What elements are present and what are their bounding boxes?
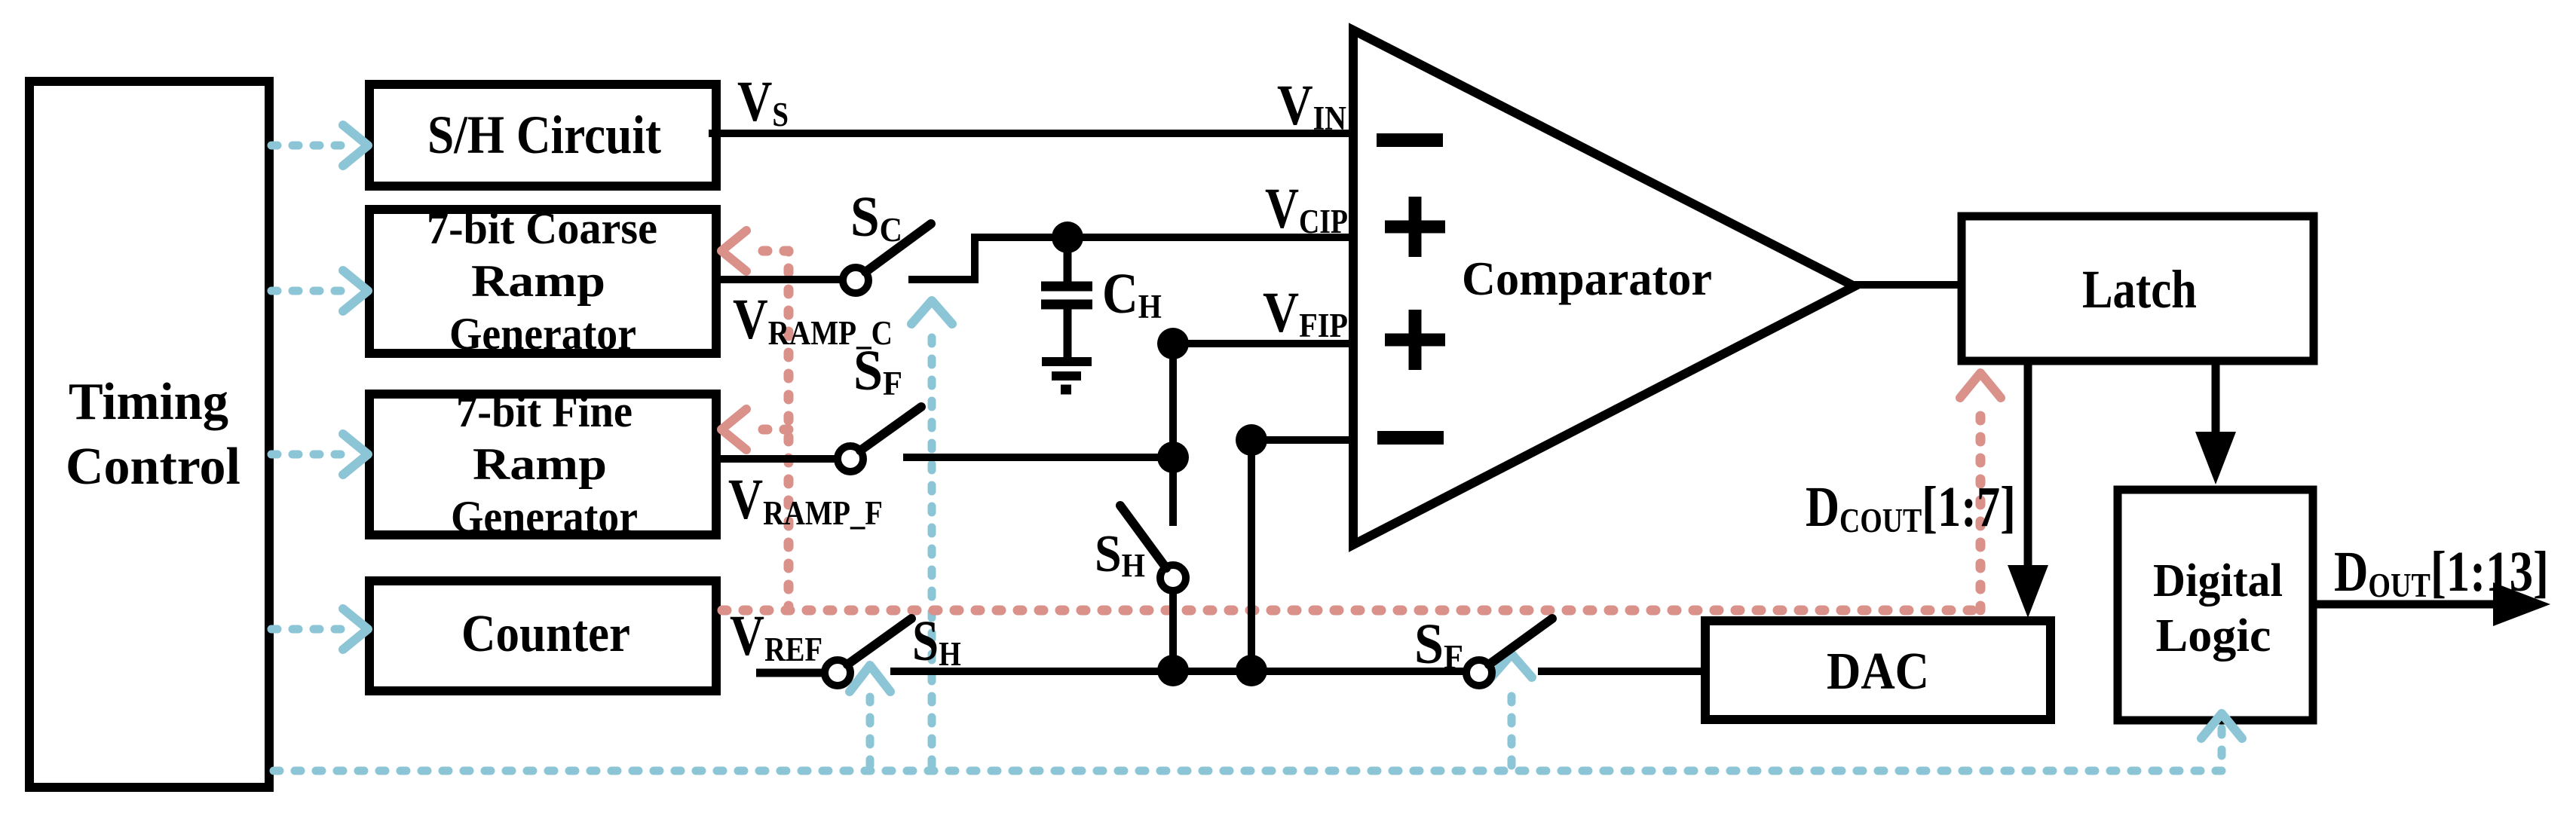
plus input V_CIP xyxy=(1385,197,1445,257)
label V_IN xyxy=(1277,75,1346,138)
minus input V_REF xyxy=(1377,431,1444,445)
op-amp comparator xyxy=(1353,30,1855,545)
svg-text:Generator: Generator xyxy=(449,309,636,359)
arrowhead into S/H xyxy=(343,125,368,166)
label D_COUT[1:7] xyxy=(1806,475,2016,540)
wire V_RAMP_C from coarse ramp to switch SC xyxy=(712,276,844,283)
svg-text:Latch: Latch xyxy=(2082,259,2197,319)
wire comparator minus input xyxy=(1251,436,1353,444)
wire timing to fine ramp xyxy=(271,451,343,459)
arrowhead to latch xyxy=(1960,373,2001,398)
svg-text:Counter: Counter xyxy=(461,605,630,663)
label V_CIP xyxy=(1265,177,1348,241)
plus input V_FIP xyxy=(1385,310,1445,370)
block Latch xyxy=(1962,216,2314,361)
block Timing Control xyxy=(29,81,269,787)
wire comparator output to Latch xyxy=(1849,281,1962,289)
wire node down to switch SH xyxy=(1169,457,1177,526)
wire from SC to V_CIP rail (step) xyxy=(908,237,975,280)
svg-text:Timing: Timing xyxy=(69,373,228,431)
label V_REF xyxy=(730,605,822,669)
wire V_RAMP_F from fine ramp to switch SF xyxy=(712,455,838,463)
label V_RAMP_F xyxy=(728,468,883,533)
node on V_CIP rail xyxy=(1052,222,1083,253)
svg-text:Control: Control xyxy=(66,438,240,496)
switch SF near DAC xyxy=(1466,619,1552,686)
capacitor C_H xyxy=(1041,237,1092,357)
label C_H xyxy=(1102,263,1162,326)
arrowhead into coarse ramp xyxy=(343,270,368,311)
svg-text:7-bit Fine: 7-bit Fine xyxy=(456,387,633,436)
block Counter xyxy=(369,581,716,691)
wire timing to counter xyxy=(271,625,343,634)
block 7-bit Fine Ramp Generator xyxy=(369,387,716,542)
switch SH on V_REF rail xyxy=(825,619,911,686)
arrowhead into counter xyxy=(343,609,368,649)
label SC xyxy=(850,185,902,249)
ground xyxy=(1042,362,1092,390)
label SH xyxy=(912,610,961,674)
wire riser to SF switch xyxy=(1508,686,1516,765)
svg-text:7-bit Coarse: 7-bit Coarse xyxy=(427,203,657,253)
node V_FIP xyxy=(1157,328,1189,359)
block DAC xyxy=(1705,621,2051,720)
node SF wire xyxy=(1157,442,1189,473)
svg-text:Digital: Digital xyxy=(2153,555,2283,607)
wire V_S from S/H to comparator xyxy=(709,130,1353,137)
block S/H Circuit xyxy=(369,84,716,186)
label SF xyxy=(853,338,902,402)
label SF xyxy=(1414,612,1463,676)
wire V_FIP node down to SF wire xyxy=(1169,344,1177,457)
svg-text:S/H Circuit: S/H Circuit xyxy=(427,105,661,165)
blue dashed control lines xyxy=(271,145,2222,771)
switch SF xyxy=(838,407,921,472)
svg-text:Ramp: Ramp xyxy=(471,256,605,306)
svg-text:Ramp: Ramp xyxy=(473,439,607,489)
arrowhead into coarse ramp xyxy=(721,231,746,271)
svg-text:Generator: Generator xyxy=(451,492,638,542)
wire riser left xyxy=(784,251,794,610)
svg-text:DAC: DAC xyxy=(1827,643,1929,701)
switch SH vertical xyxy=(1120,506,1186,591)
arrowhead to SH switch xyxy=(850,665,890,692)
wire node down to V_REF rail xyxy=(1248,440,1255,671)
wire switch SF to DAC xyxy=(1538,668,1710,675)
minus input V_IN xyxy=(1377,133,1443,147)
arrowhead into fine ramp xyxy=(343,434,368,475)
wire timing to coarse ramp xyxy=(271,287,343,295)
wire from SF to node xyxy=(903,454,1173,461)
label D_OUT[1:13] xyxy=(2334,541,2549,605)
arrowhead to SC switch xyxy=(911,301,952,324)
label SH xyxy=(1095,524,1145,584)
svg-text:Comparator: Comparator xyxy=(1462,252,1712,305)
label V_S xyxy=(737,70,789,134)
node minus input xyxy=(1236,424,1267,456)
wire V_REF rail xyxy=(890,668,1467,675)
salmon dashed D_COUT lines xyxy=(722,251,1980,610)
svg-text:DOUT[1:13]: DOUT[1:13] xyxy=(2334,541,2549,605)
wire counter to DAC rail xyxy=(722,606,1980,616)
wire V_FIP rail xyxy=(1173,340,1353,347)
arrowhead into fine ramp xyxy=(721,409,746,450)
label V_FIP xyxy=(1263,281,1348,345)
wire riser right to latch xyxy=(1976,403,1986,610)
label V_RAMP_C xyxy=(733,288,893,353)
wire V_REF from label to switch SH xyxy=(756,669,825,677)
wire timing to S/H xyxy=(271,142,343,150)
wire timing bottom rail xyxy=(274,721,2222,771)
wire Latch to DAC with arrow xyxy=(2008,362,2048,618)
switch SC xyxy=(843,224,931,293)
node rail minus xyxy=(1236,655,1267,686)
wire branch to fine ramp xyxy=(748,425,789,435)
wire riser to SC switch xyxy=(928,329,936,765)
block Digital Logic xyxy=(2118,490,2313,720)
block 7-bit Coarse Ramp Generator xyxy=(369,203,716,359)
wire branch to coarse ramp xyxy=(748,246,789,256)
node rail SH xyxy=(1157,655,1189,686)
wire Digital Logic output D_OUT with arrow xyxy=(2313,582,2550,626)
arrowhead to SF switch xyxy=(1491,654,1532,677)
wire V_CIP rail xyxy=(971,234,1353,241)
arrowhead into Digital Logic xyxy=(2201,714,2242,738)
wire riser to SH switch xyxy=(866,697,874,765)
svg-text:Logic: Logic xyxy=(2156,610,2271,662)
wire SH down to V_REF rail xyxy=(1169,591,1177,671)
wire Latch to Digital Logic with arrow xyxy=(2195,362,2236,484)
